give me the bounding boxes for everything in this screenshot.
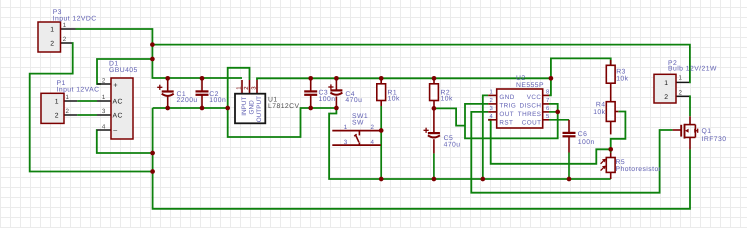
svg-text:+: +	[113, 80, 118, 89]
svg-text:2: 2	[63, 36, 67, 43]
svg-text:–: –	[113, 127, 117, 134]
svg-text:3: 3	[489, 105, 493, 112]
svg-text:GND: GND	[248, 100, 255, 115]
svg-text:R4: R4	[596, 102, 606, 109]
svg-text:2: 2	[371, 124, 375, 131]
svg-text:NE555P: NE555P	[516, 82, 544, 89]
svg-text:SW: SW	[352, 119, 364, 126]
svg-text:2: 2	[50, 41, 54, 48]
svg-text:THRES: THRES	[518, 111, 542, 118]
svg-text:470u: 470u	[345, 97, 362, 104]
svg-text:C6: C6	[578, 131, 588, 138]
svg-text:1: 1	[50, 27, 54, 34]
svg-text:2200u: 2200u	[177, 97, 198, 104]
svg-text:10k: 10k	[616, 75, 628, 82]
svg-text:Input 12VAC: Input 12VAC	[57, 87, 100, 94]
svg-text:DISCH: DISCH	[520, 103, 542, 110]
svg-text:GBU405: GBU405	[109, 67, 138, 74]
svg-text:Q1: Q1	[702, 128, 712, 135]
svg-text:2: 2	[66, 108, 70, 115]
svg-text:2: 2	[55, 113, 59, 120]
svg-text:1: 1	[63, 22, 67, 29]
svg-text:INPUT: INPUT	[241, 97, 248, 116]
svg-text:1: 1	[679, 75, 683, 82]
svg-text:1: 1	[66, 94, 70, 101]
svg-text:GND: GND	[499, 94, 514, 101]
svg-text:2: 2	[489, 97, 493, 104]
svg-text:8: 8	[546, 89, 550, 96]
svg-text:4: 4	[489, 113, 493, 120]
svg-text:Input 12VDC: Input 12VDC	[53, 16, 97, 23]
svg-text:100n: 100n	[209, 97, 226, 104]
svg-text:1: 1	[102, 94, 106, 101]
svg-text:IRF730: IRF730	[702, 136, 727, 143]
svg-text:100n: 100n	[319, 96, 336, 103]
svg-text:1: 1	[344, 124, 348, 131]
svg-text:Bulb 12V/21W: Bulb 12V/21W	[668, 66, 717, 73]
svg-text:2: 2	[664, 94, 668, 101]
svg-text:6: 6	[546, 105, 550, 112]
svg-text:COUT: COUT	[522, 120, 542, 127]
svg-text:10k: 10k	[441, 96, 453, 103]
svg-text:OUTPUT: OUTPUT	[256, 96, 263, 122]
svg-text:L7812CV: L7812CV	[268, 103, 300, 110]
svg-text:5: 5	[546, 113, 550, 120]
svg-text:VCC: VCC	[527, 94, 542, 101]
svg-text:1: 1	[55, 99, 59, 106]
svg-text:RST: RST	[499, 120, 513, 127]
svg-text:1: 1	[664, 80, 668, 87]
svg-text:2: 2	[679, 90, 683, 97]
svg-text:10k: 10k	[593, 109, 605, 116]
svg-text:10k: 10k	[388, 96, 400, 103]
svg-text:AC: AC	[113, 113, 123, 120]
svg-text:Photoresistor: Photoresistor	[616, 166, 662, 173]
svg-text:4: 4	[371, 139, 375, 146]
svg-text:7: 7	[546, 97, 550, 104]
svg-text:3: 3	[344, 139, 348, 146]
svg-text:OUT: OUT	[499, 111, 514, 118]
svg-text:AC: AC	[113, 99, 123, 106]
svg-text:TRIG: TRIG	[499, 103, 516, 110]
svg-text:100n: 100n	[578, 139, 595, 146]
svg-text:470u: 470u	[444, 141, 461, 148]
svg-text:2: 2	[102, 77, 106, 84]
svg-text:3: 3	[102, 108, 106, 115]
svg-text:4: 4	[102, 123, 106, 130]
svg-text:1: 1	[489, 89, 493, 96]
